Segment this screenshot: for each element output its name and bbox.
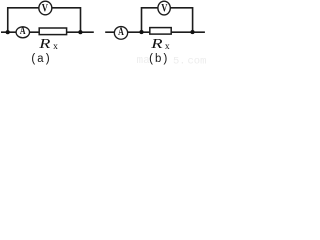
wire: circuit (a) bottom wire — [1, 31, 94, 33]
svg-text:A: A — [118, 25, 124, 38]
wire: circuit (b) top loop — [142, 8, 193, 32]
wire: circuit (a) top loop — [8, 8, 81, 32]
svg-text:5.: 5. — [173, 56, 186, 67]
svg-text:com: com — [188, 56, 207, 67]
svg-text:(a): (a) — [30, 53, 51, 66]
resistor Rx (a) box — [39, 28, 66, 35]
node: junction dot left (b) — [139, 30, 143, 34]
resistor Rx (b) box — [150, 28, 171, 34]
node: junction dot left (a) — [6, 30, 10, 34]
ammeter A (a) — [16, 25, 29, 38]
svg-text:V: V — [42, 2, 49, 15]
svg-text:A: A — [20, 25, 26, 38]
voltmeter V (b) — [158, 1, 170, 15]
svg-text:V: V — [161, 2, 168, 15]
svg-text:(b): (b) — [148, 53, 169, 66]
svg-text:x: x — [53, 42, 58, 52]
node: junction dot right (b) — [190, 30, 194, 34]
svg-text:R: R — [150, 35, 162, 51]
ammeter A (b) — [114, 25, 127, 39]
svg-text:R: R — [38, 36, 50, 52]
svg-text:x: x — [165, 42, 170, 52]
wire: circuit (b) bottom wire — [105, 31, 205, 33]
voltmeter V (a) — [39, 1, 52, 15]
node: junction dot right (a) — [78, 30, 82, 34]
